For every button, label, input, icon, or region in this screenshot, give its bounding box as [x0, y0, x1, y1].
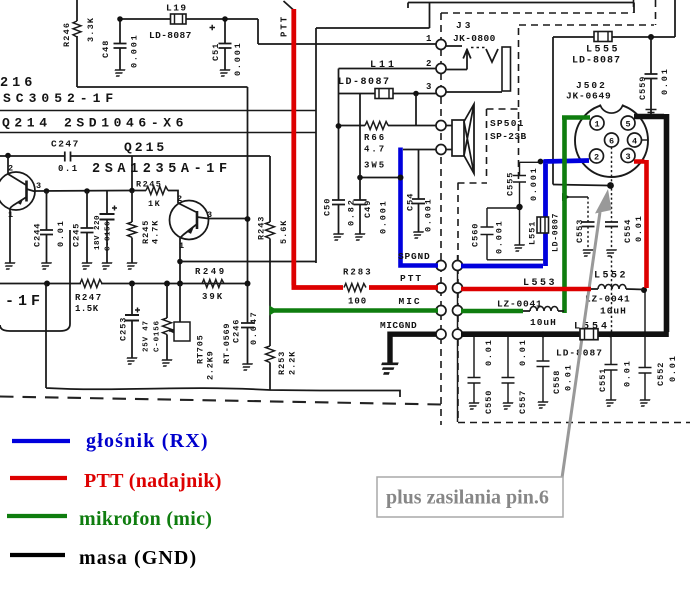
- svg-text:C246: C246: [232, 319, 242, 343]
- wire C247 net y=155.5: [0, 156, 270, 222]
- svg-text:10uH: 10uH: [600, 306, 627, 317]
- node: [336, 123, 342, 129]
- svg-text:C50: C50: [323, 198, 333, 216]
- bottom cap C550: [473, 337, 475, 377]
- svg-text:C554: C554: [623, 219, 633, 243]
- resistor R249 39K: [202, 280, 224, 288]
- wire bus y=85: [77, 86, 248, 88]
- svg-text:R243: R243: [257, 216, 267, 240]
- svg-text:3: 3: [626, 152, 631, 162]
- coil L553 black over green: [523, 310, 564, 312]
- DIN pin 1: [590, 116, 604, 130]
- svg-text:3W5: 3W5: [364, 161, 386, 171]
- inductor L555: [594, 32, 612, 42]
- ground: [581, 250, 594, 256]
- ground: [80, 263, 93, 269]
- jack J3 pin3 wire: [446, 91, 502, 93]
- capacitor C48: [119, 19, 121, 44]
- svg-text:100: 100: [348, 297, 367, 307]
- wire L555 left drop x=553: [552, 37, 554, 185]
- svg-text:LD-8087: LD-8087: [149, 30, 192, 41]
- svg-text:0.01: 0.01: [564, 363, 574, 391]
- svg-text:JK-0649: JK-0649: [566, 91, 612, 102]
- trimmer RT705: [166, 284, 168, 319]
- capacitor C247: [65, 152, 71, 162]
- lower connector pins col2: [453, 261, 463, 271]
- lower connector col2 vertical: [457, 255, 459, 422]
- wire vertical x=247 to C246: [247, 87, 249, 284]
- svg-text:C49: C49: [363, 200, 373, 218]
- coil L552 black: [591, 288, 644, 291]
- capacitor C244: [46, 191, 48, 230]
- node C551/pin6 tap: [608, 331, 614, 337]
- svg-text:R66: R66: [364, 133, 386, 143]
- svg-text:C244: C244: [33, 223, 43, 247]
- node C245: [84, 188, 90, 194]
- bottom cap C551: [610, 335, 612, 364]
- svg-text:C552: C552: [656, 362, 666, 386]
- resistor R247 1.5K: [80, 280, 102, 288]
- svg-text:0.047: 0.047: [249, 310, 259, 345]
- bottom cap C558: [542, 337, 544, 361]
- svg-text:0.1: 0.1: [58, 164, 79, 174]
- svg-text:1: 1: [426, 34, 432, 44]
- svg-text:MICGND: MICGND: [380, 320, 417, 331]
- jack J3 V contact: [486, 49, 498, 62]
- wire micgnd left: [390, 334, 436, 363]
- node C555 mid: [516, 204, 522, 210]
- svg-text:L552: L552: [594, 271, 628, 282]
- DIN connector J502 outline: [575, 104, 648, 177]
- capacitor C555 net: [520, 162, 541, 175]
- node: [177, 281, 183, 287]
- wire red col2 to L552: [461, 287, 591, 292]
- DIN pin 2: [590, 149, 604, 163]
- node C244: [44, 188, 50, 194]
- jack J3 sleeve: [502, 47, 511, 91]
- svg-text:-1F: -1F: [5, 293, 44, 310]
- svg-text:R246: R246: [62, 22, 72, 47]
- svg-text:RT-0569: RT-0569: [222, 323, 232, 364]
- svg-text:R245: R245: [136, 180, 162, 190]
- svg-text:C245: C245: [72, 223, 82, 247]
- svg-text:0.001: 0.001: [424, 197, 434, 232]
- svg-text:5.6K: 5.6K: [279, 220, 289, 244]
- wire bottom return y=388: [46, 284, 400, 398]
- svg-text:C560: C560: [471, 223, 481, 247]
- svg-text:4.7K: 4.7K: [151, 220, 161, 244]
- capacitor C-0156 electrolytic 18V220: [106, 191, 108, 214]
- lower connector pins col1: [436, 261, 446, 271]
- resistor R66: [365, 122, 388, 130]
- legend blue line: [12, 439, 70, 443]
- legend green line: [7, 514, 67, 518]
- inductor L11: [375, 89, 393, 99]
- inductor L554 over black: [580, 329, 598, 340]
- capacitor C246: [247, 284, 249, 324]
- svg-text:C557: C557: [518, 390, 528, 414]
- node: [129, 281, 135, 287]
- svg-text:6: 6: [609, 137, 614, 147]
- wire -1F loop: [0, 230, 70, 331]
- capacitor C253 electrolytic: [131, 284, 133, 316]
- resistor R245 1K horizontal: [146, 187, 168, 195]
- wire red pin3 to L552 out: [634, 160, 647, 288]
- node L19 right: [222, 16, 228, 22]
- capacitor C559: [650, 37, 652, 74]
- speaker SP501: [452, 120, 464, 156]
- svg-text:3: 3: [426, 82, 431, 92]
- svg-text:mikrofon (mic): mikrofon (mic): [79, 508, 212, 530]
- ground Q214 emitter: [3, 263, 16, 269]
- dashed border top y=13: [441, 12, 630, 14]
- capacitor C51: [224, 19, 226, 44]
- node Q215 emitter: [177, 259, 183, 265]
- ground: [100, 263, 113, 269]
- annotation arrow line: [562, 212, 600, 478]
- ground: [467, 403, 480, 409]
- heavy dashed border bottom-left: [0, 397, 441, 405]
- svg-text:R247: R247: [75, 293, 103, 303]
- node C555 top: [538, 159, 544, 165]
- node R244 top: [129, 188, 135, 194]
- svg-text:0.001: 0.001: [130, 33, 140, 68]
- wire y=177.5: [360, 177, 401, 179]
- resistor R244 vertical 4.7K: [131, 191, 133, 223]
- svg-text:SC3052-1F: SC3052-1F: [3, 91, 118, 106]
- svg-text:39K: 39K: [202, 292, 224, 302]
- ground: [512, 245, 525, 251]
- tap triangle on green: [562, 193, 570, 201]
- svg-text:JK-0800: JK-0800: [453, 33, 496, 44]
- svg-text:10uH: 10uH: [530, 317, 557, 328]
- ground: [125, 358, 138, 364]
- node: [413, 91, 419, 97]
- wire pin6 vertical: [611, 147, 613, 335]
- capacitor C553 drop: [587, 197, 589, 250]
- svg-text:C553: C553: [575, 219, 585, 243]
- svg-text:PTT (nadajnik): PTT (nadajnik): [84, 470, 222, 492]
- wire Q215 collector to x=247: [212, 218, 248, 220]
- jack J3 dotted link: [471, 47, 485, 49]
- node: [648, 34, 654, 40]
- svg-text:C550: C550: [484, 390, 494, 414]
- wire Q214 band bottom line: [0, 132, 316, 134]
- svg-text:C54: C54: [406, 193, 416, 211]
- dashed corner x=655.5: [655, 0, 657, 25]
- wire y=27 to top: [316, 3, 634, 29]
- svg-text:C247: C247: [51, 139, 80, 150]
- DIN pin 3: [621, 149, 635, 163]
- wire L555 net y=37: [553, 0, 675, 37]
- ground: [604, 400, 617, 406]
- svg-text:3.3K: 3.3K: [86, 17, 96, 42]
- annotation box plus zasilania pin.6: [377, 477, 563, 517]
- svg-text:0.01: 0.01: [623, 359, 633, 387]
- svg-text:C551: C551: [598, 368, 608, 392]
- ground: [501, 403, 514, 409]
- wire red PTT vertical: [292, 9, 439, 288]
- jack J3 plug arrow: [446, 49, 471, 70]
- bottom cap C552: [644, 290, 646, 367]
- svg-text:L19: L19: [166, 3, 188, 14]
- wire blue SP net (vertical from C54 area): [398, 148, 438, 266]
- node C558 tap: [540, 331, 546, 337]
- ground: [353, 234, 366, 240]
- svg-text:J502: J502: [576, 80, 607, 91]
- svg-text:2.2K9: 2.2K9: [206, 350, 216, 380]
- node blue/C49: [398, 175, 404, 181]
- svg-text:SP501: SP501: [490, 118, 525, 129]
- pin4 tick: [642, 139, 649, 141]
- svg-text:R245: R245: [141, 220, 151, 244]
- svg-text:C51: C51: [211, 43, 221, 61]
- annotation arrowhead: [595, 189, 612, 214]
- ground: [536, 402, 549, 408]
- svg-text:216: 216: [0, 76, 36, 91]
- dashed corner x=633.5: [633, 0, 635, 13]
- dashed mic box left x=458: [457, 183, 459, 422]
- ground: [160, 360, 173, 366]
- svg-text:C-0156: C-0156: [154, 320, 162, 352]
- wire SC band line: [0, 110, 316, 112]
- dashed border x=441: [440, 13, 442, 425]
- ground: [125, 263, 138, 269]
- node: [357, 175, 363, 181]
- svg-text:R249: R249: [195, 267, 227, 277]
- wire x=416 down: [415, 94, 417, 126]
- svg-text:L555: L555: [586, 45, 620, 56]
- svg-text:PTT: PTT: [400, 273, 423, 284]
- svg-text:0.01: 0.01: [634, 214, 644, 242]
- wire R66 net y=125.5: [339, 125, 437, 127]
- green tip triangle: [270, 306, 278, 316]
- dashed jack box x=518: [518, 28, 520, 184]
- inductor L551 over blue: [537, 217, 549, 233]
- wire pin6 feed y=184.5: [553, 185, 608, 186]
- svg-text:1.5K: 1.5K: [75, 304, 99, 314]
- bottom cap C557: [507, 337, 509, 377]
- svg-text:L11: L11: [370, 60, 397, 71]
- wire blue col2 to L551: [461, 160, 589, 266]
- svg-text:2SA1235A-1F: 2SA1235A-1F: [92, 162, 232, 177]
- svg-text:0.01: 0.01: [518, 338, 528, 366]
- capacitor C245: [86, 191, 88, 228]
- svg-text:Q214 2SD1046-X6: Q214 2SD1046-X6: [2, 116, 188, 131]
- svg-text:plus zasilania pin.6: plus zasilania pin.6: [386, 487, 549, 509]
- legend red line: [10, 476, 67, 480]
- svg-text:0.01: 0.01: [660, 67, 670, 95]
- svg-text:C48: C48: [101, 40, 111, 58]
- svg-text:3: 3: [207, 210, 212, 220]
- svg-text:SPGND: SPGND: [398, 251, 431, 262]
- svg-text:2: 2: [426, 59, 431, 69]
- wire J3 pin1 net: [258, 19, 436, 44]
- ground: [218, 70, 231, 76]
- resistor R246: [73, 21, 81, 37]
- svg-text:18V 220: 18V 220: [94, 215, 102, 250]
- C559 termination mark: [646, 110, 657, 113]
- capacitor C560: [487, 208, 520, 227]
- svg-text:1K: 1K: [148, 199, 161, 209]
- wire L11 out y=93.5: [339, 93, 436, 95]
- DIN pin 5: [621, 116, 635, 130]
- DIN pin 4: [628, 133, 642, 147]
- node L19 left: [117, 16, 123, 22]
- DIN pin 6: [605, 133, 619, 147]
- ground: [240, 364, 253, 370]
- wire L19 net y=18: [120, 18, 258, 20]
- svg-text:C555: C555: [506, 172, 516, 196]
- svg-text:R283: R283: [343, 268, 373, 278]
- svg-text:R253: R253: [277, 351, 287, 375]
- transistor Q215: [170, 201, 209, 240]
- wire black GND thick pin5: [461, 114, 669, 334]
- svg-text:5: 5: [626, 120, 631, 130]
- svg-text:4.7: 4.7: [364, 145, 386, 155]
- svg-text:C559: C559: [638, 76, 648, 100]
- wire speaker jack pin5 y=149.5: [403, 149, 436, 151]
- svg-text:0.82: 0.82: [347, 198, 357, 226]
- svg-text:0.01: 0.01: [484, 338, 494, 366]
- ground: [39, 263, 52, 269]
- svg-text:Q215: Q215: [124, 140, 167, 155]
- svg-text:J3: J3: [456, 20, 473, 31]
- dashed border y=25: [519, 24, 654, 26]
- wire green MIC net: [272, 308, 439, 313]
- svg-text:masa (GND): masa (GND): [79, 547, 197, 569]
- speaker SP501 wires: [446, 126, 452, 150]
- ground: [604, 250, 617, 256]
- wire green col2 to L553: [461, 309, 523, 314]
- capacitor C49: [359, 94, 361, 201]
- wire top-left vertical feed: [76, 0, 78, 87]
- svg-text:C-0156: C-0156: [105, 221, 113, 251]
- resistor R283 over red: [343, 281, 369, 293]
- svg-text:0.001: 0.001: [495, 219, 505, 254]
- inductor L19: [171, 14, 187, 24]
- transistor Q214: [0, 172, 35, 210]
- main wire y=283.5: [0, 283, 247, 285]
- node L552 out: [641, 287, 647, 293]
- wire Q214 collector bus y=191: [35, 190, 132, 193]
- svg-text:RT705: RT705: [196, 334, 206, 364]
- node C247 left: [5, 153, 11, 159]
- ground: [378, 364, 398, 374]
- wire C553 tap from green: [566, 196, 588, 198]
- svg-text:C558: C558: [552, 370, 562, 394]
- svg-text:LD-8087: LD-8087: [572, 56, 621, 67]
- node pin6: [607, 182, 614, 189]
- svg-text:1: 1: [595, 120, 600, 130]
- dashed speaker box x=484: [486, 109, 488, 181]
- mic box top edge: [458, 182, 488, 184]
- resistor R253 2.2K: [269, 310, 271, 346]
- svg-text:1: 1: [179, 241, 184, 251]
- wire PTT top diagonal: [284, 1, 294, 10]
- svg-text:0.01: 0.01: [668, 354, 678, 382]
- svg-text:C253: C253: [119, 317, 129, 341]
- jack J3 tip wire: [446, 45, 462, 47]
- svg-text:1: 1: [8, 210, 13, 220]
- svg-text:4: 4: [632, 137, 637, 147]
- svg-text:SP-23B: SP-23B: [490, 131, 527, 142]
- svg-text:MIC: MIC: [399, 296, 422, 307]
- capacitor C554: [605, 222, 618, 227]
- capacitor C50: [332, 200, 345, 205]
- svg-text:2: 2: [177, 194, 182, 204]
- wire vertical x=316: [315, 28, 317, 263]
- svg-text:PTT: PTT: [280, 15, 290, 37]
- ground: [411, 232, 424, 238]
- svg-text:2.2K: 2.2K: [288, 351, 298, 375]
- svg-text:L551: L551: [528, 221, 538, 245]
- node: [44, 281, 50, 287]
- legend black line: [10, 553, 65, 557]
- dashed speaker box top y=109: [487, 108, 519, 110]
- ground: [113, 70, 126, 76]
- dashed mic box bottom y=422.5: [458, 422, 690, 424]
- svg-text:LD-8087: LD-8087: [338, 77, 391, 88]
- plus mark near C51: [210, 25, 216, 31]
- wire green vertical to pin1: [562, 118, 590, 314]
- wire J3 pin2 net L11: [339, 69, 437, 201]
- node: [164, 281, 170, 287]
- ground: [638, 400, 651, 406]
- svg-text:0.01: 0.01: [56, 219, 66, 247]
- svg-text:0.001: 0.001: [529, 166, 539, 201]
- svg-text:2: 2: [8, 164, 13, 174]
- svg-text:0.001: 0.001: [379, 199, 389, 234]
- node: [245, 281, 251, 287]
- capacitor C54: [418, 150, 420, 200]
- ground: [331, 234, 344, 240]
- wire y=260: [180, 261, 316, 263]
- svg-text:2: 2: [594, 153, 599, 163]
- svg-text:głośnik (RX): głośnik (RX): [86, 430, 209, 452]
- J3 connector pins: [436, 40, 446, 50]
- svg-text:25V 47: 25V 47: [143, 320, 151, 352]
- svg-text:LZ-0041: LZ-0041: [585, 294, 631, 305]
- svg-text:0.001: 0.001: [233, 41, 243, 76]
- resistor R243 5.6K: [266, 222, 275, 239]
- svg-text:3: 3: [36, 181, 41, 191]
- svg-text:LD-0807: LD-0807: [552, 213, 561, 252]
